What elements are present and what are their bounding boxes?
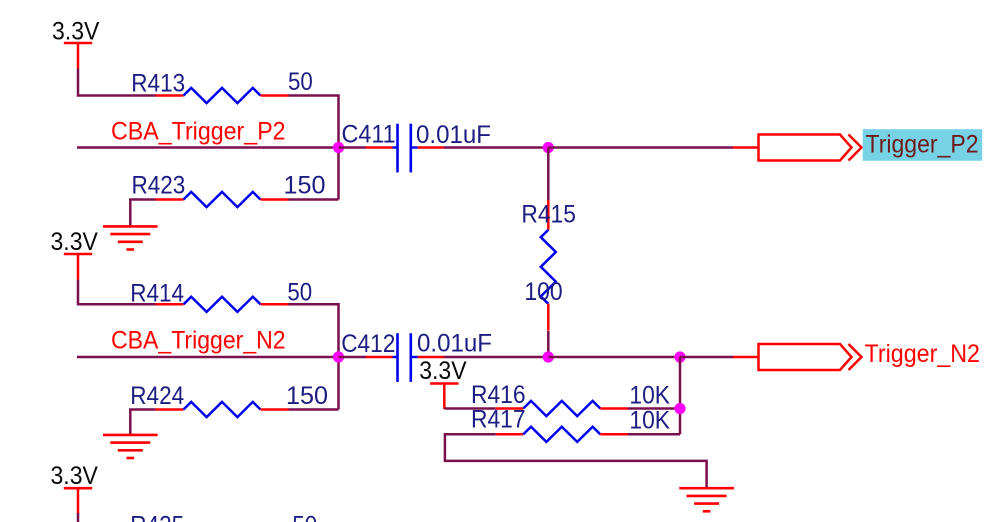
wire power to R416	[444, 407, 495, 410]
svg-text:R425: R425	[130, 512, 184, 522]
wire vertical branch to R417	[679, 357, 682, 434]
power symbol 3.3V (ch1)	[64, 43, 92, 69]
svg-text:3.3V: 3.3V	[52, 17, 100, 45]
resistor R414	[156, 297, 289, 312]
node junction at R416 right	[674, 403, 685, 414]
wire R414 to vertical	[289, 304, 339, 409]
wire junction to port N2	[680, 356, 733, 359]
wire power to R414	[78, 280, 156, 305]
svg-text:R415: R415	[521, 200, 576, 228]
resistor R415 (vertical)	[541, 148, 556, 358]
node junction at C412 left	[333, 351, 344, 362]
wire net CBA_Trigger_P2	[77, 146, 339, 149]
wire R417 left to ground run	[445, 434, 707, 488]
port pin red (P2)	[733, 146, 759, 149]
svg-text:10K: 10K	[629, 407, 670, 435]
wire junction to C411	[339, 146, 367, 149]
wire C412 to R415 bottom junction	[444, 356, 549, 359]
svg-text:R424: R424	[130, 382, 184, 410]
wire R423 right to vertical	[289, 198, 339, 201]
resistor R417	[496, 427, 628, 442]
port pin red (N2)	[733, 356, 759, 359]
resistor R424	[156, 402, 289, 417]
svg-text:R413: R413	[131, 69, 185, 97]
wire junction to branch junction	[548, 356, 680, 359]
power symbol 3.3V (divider)	[430, 384, 458, 410]
node junction at R415 top	[543, 142, 554, 153]
svg-text:Trigger_N2: Trigger_N2	[865, 340, 981, 368]
power symbol 3.3V (ch3)	[64, 488, 92, 514]
svg-text:R417: R417	[471, 406, 526, 434]
svg-text:50: 50	[287, 278, 312, 306]
resistor R413	[156, 88, 289, 103]
wire power stem ch3	[77, 513, 80, 522]
svg-text:0.01uF: 0.01uF	[417, 330, 492, 358]
svg-text:10K: 10K	[629, 382, 670, 410]
node junction at C411 left	[333, 142, 344, 153]
svg-text:3.3V: 3.3V	[51, 462, 99, 490]
power symbol 3.3V (ch2)	[64, 254, 92, 280]
svg-text:R423: R423	[132, 171, 186, 199]
capacitor C411	[366, 124, 444, 173]
wire net CBA_Trigger_N2	[77, 356, 339, 359]
svg-text:3.3V: 3.3V	[51, 228, 99, 256]
svg-text:50: 50	[288, 68, 313, 96]
svg-text:3.3V: 3.3V	[419, 357, 467, 385]
resistor R416	[496, 401, 628, 416]
wire power to R413	[78, 69, 156, 96]
ground under R424	[103, 435, 158, 458]
wire C411 to R415 top junction	[444, 146, 549, 149]
highlight box (selected net)	[863, 129, 983, 161]
svg-text:150: 150	[284, 171, 326, 199]
resistor R423	[156, 192, 289, 207]
wire junction to C412	[339, 356, 367, 359]
wire R423 left to ground stem	[130, 200, 155, 227]
wire junction to port P2	[548, 146, 733, 149]
ground under R423	[103, 226, 158, 249]
svg-text:50: 50	[292, 512, 317, 522]
wire R413 to vertical	[289, 96, 339, 200]
svg-text:C411: C411	[342, 120, 396, 148]
svg-text:CBA_Trigger_N2: CBA_Trigger_N2	[111, 327, 286, 355]
svg-text:CBA_Trigger_P2: CBA_Trigger_P2	[111, 117, 286, 145]
svg-text:Trigger_P2: Trigger_P2	[866, 130, 979, 158]
port symbol Trigger_P2	[759, 135, 862, 161]
node junction at R415 bottom	[543, 351, 554, 362]
svg-text:C412: C412	[341, 330, 395, 358]
svg-text:100: 100	[524, 278, 562, 306]
port symbol Trigger_N2	[759, 344, 862, 370]
ground at divider bottom	[679, 488, 734, 511]
node junction at divider branch	[674, 351, 685, 362]
wire R424 left to ground stem	[130, 410, 155, 435]
capacitor C412	[366, 333, 444, 382]
svg-text:150: 150	[286, 382, 328, 410]
svg-text:0.01uF: 0.01uF	[416, 121, 491, 149]
wire R416 right to vertical	[628, 407, 680, 410]
wire R424 right to vertical	[289, 408, 339, 411]
wire R417 right to vertical	[628, 433, 680, 436]
